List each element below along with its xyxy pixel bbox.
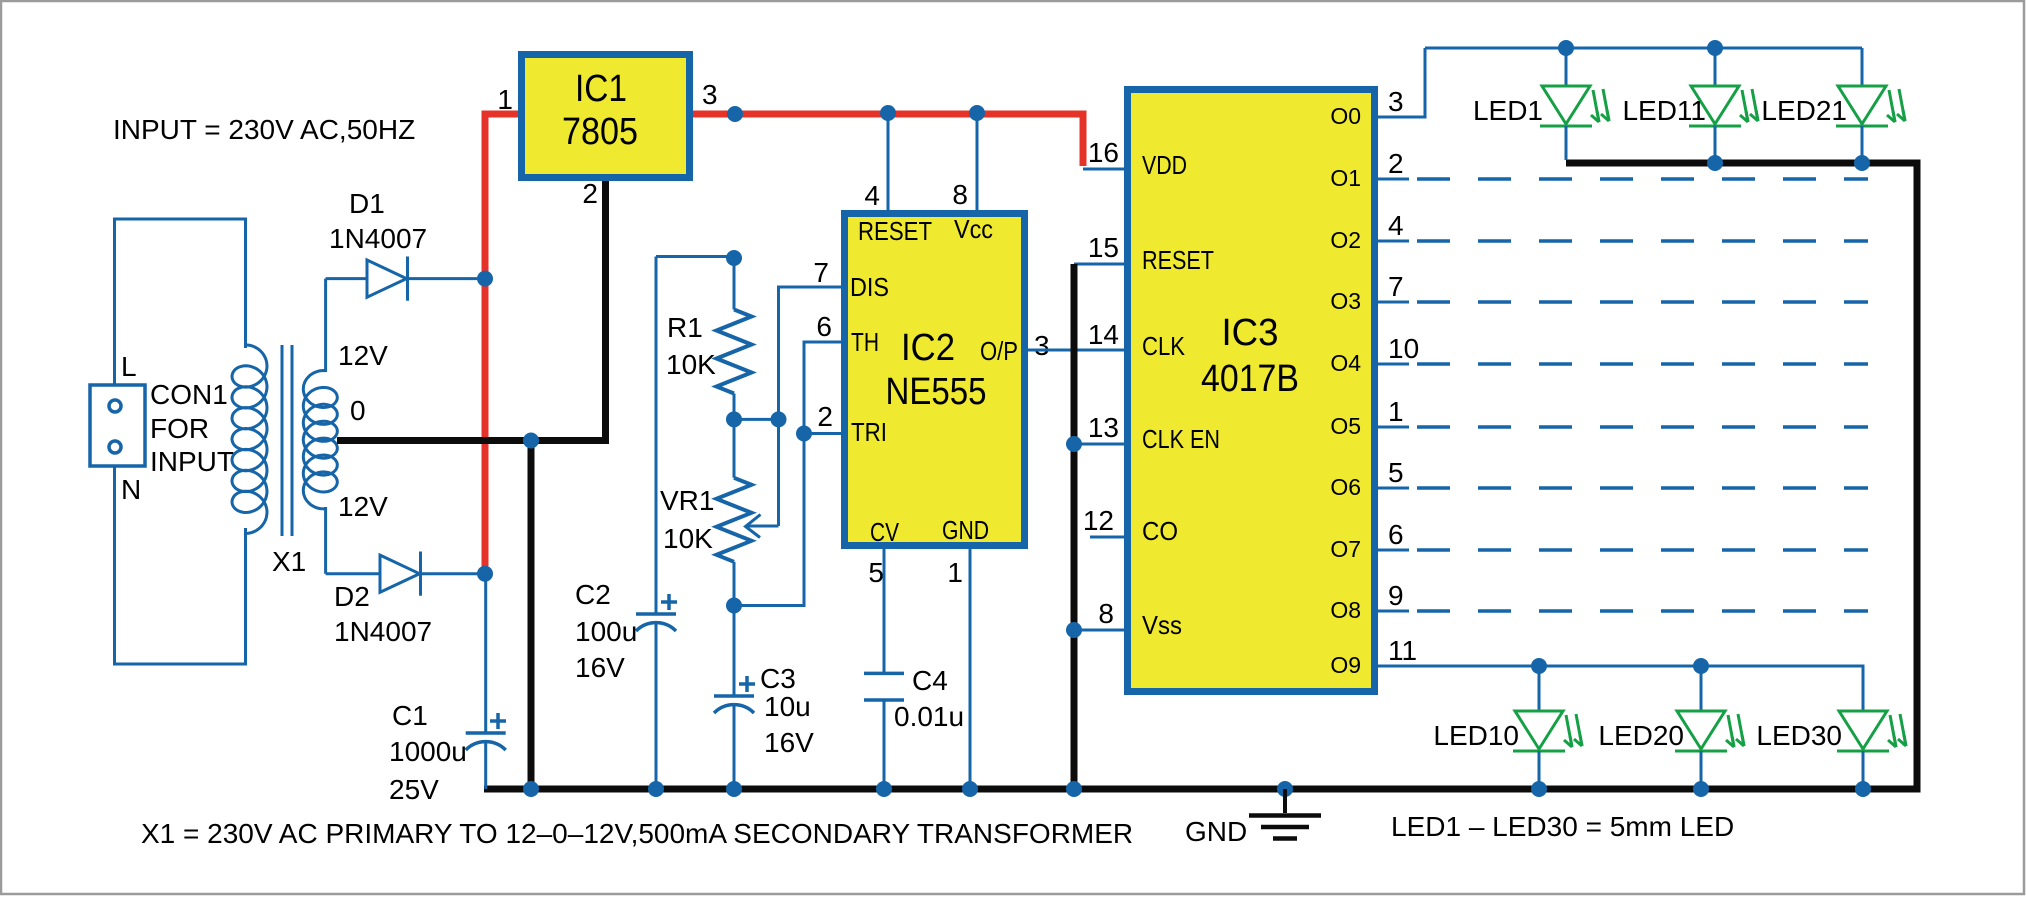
node: pin8 junction bbox=[969, 105, 985, 121]
capacitor C1 1000u 25V bbox=[466, 574, 506, 789]
ground rail (thick black) bbox=[484, 786, 1921, 793]
svg-text:FOR: FOR bbox=[150, 413, 209, 444]
node: R1 top junction bbox=[726, 250, 742, 266]
svg-text:INPUT: INPUT bbox=[150, 446, 234, 477]
svg-text:12V: 12V bbox=[338, 340, 388, 371]
wire: O2 dashed line bbox=[1417, 239, 1868, 243]
svg-text:16: 16 bbox=[1088, 137, 1119, 168]
svg-text:LED20: LED20 bbox=[1598, 720, 1684, 751]
wire: mains L lead from CON1 to primary top bbox=[115, 219, 246, 385]
svg-text:CON1: CON1 bbox=[150, 379, 228, 410]
svg-text:10u: 10u bbox=[764, 691, 811, 722]
svg-text:10: 10 bbox=[1388, 333, 1419, 364]
wire: Vss pin8 stub bbox=[1074, 629, 1124, 632]
wire: red rectified rail vertical bbox=[482, 114, 489, 574]
svg-text:5: 5 bbox=[868, 557, 884, 588]
node: D1 junction bbox=[477, 271, 493, 287]
svg-text:0.01u: 0.01u bbox=[894, 701, 964, 732]
wire: secondary bottom lead bbox=[324, 507, 327, 574]
svg-text:LED1: LED1 bbox=[1473, 95, 1543, 126]
wire: CV to C4 bbox=[883, 549, 886, 673]
wire: black vertical to ground rail bbox=[528, 441, 535, 790]
node: pin4 junction bbox=[880, 105, 896, 121]
node: LED21 bottom bbox=[1854, 155, 1870, 171]
svg-text:O9: O9 bbox=[1330, 652, 1361, 678]
svg-text:O6: O6 bbox=[1330, 474, 1361, 500]
wire: RESET pin15 stub bbox=[1074, 263, 1124, 266]
svg-text:GND: GND bbox=[942, 515, 989, 545]
wire: VR1 wiper riser bbox=[777, 419, 780, 526]
svg-text:CV: CV bbox=[870, 517, 900, 547]
svg-text:DIS: DIS bbox=[850, 272, 889, 302]
svg-text:5: 5 bbox=[1388, 457, 1404, 488]
wire: 0 tap to IC1 pin2 (black) bbox=[337, 181, 606, 441]
node: TRI junction bbox=[796, 426, 812, 442]
wire: O1 stub bbox=[1376, 178, 1409, 181]
wire: O5 dashed line bbox=[1417, 425, 1868, 429]
svg-text:2: 2 bbox=[582, 178, 598, 209]
node: LED1 top bbox=[1558, 40, 1574, 56]
svg-text:C4: C4 bbox=[912, 665, 948, 696]
wire: O1 dashed line bbox=[1417, 177, 1868, 181]
wire: O6 stub bbox=[1376, 487, 1409, 490]
diode D2 1N4007 bbox=[326, 552, 485, 596]
svg-text:3: 3 bbox=[702, 79, 718, 110]
wire: mains N lead from CON1 to primary bottom bbox=[115, 466, 246, 664]
node: LED30 bottom bbox=[1855, 781, 1871, 797]
svg-text:100u: 100u bbox=[575, 616, 637, 647]
wire: red from IC1 pin3 to IC3 bbox=[693, 114, 1083, 166]
wire: O2 stub bbox=[1376, 240, 1409, 243]
svg-text:C3: C3 bbox=[760, 663, 796, 694]
svg-text:R1: R1 bbox=[667, 312, 703, 343]
svg-text:12V: 12V bbox=[338, 491, 388, 522]
wire: top LED rail bbox=[1425, 47, 1862, 50]
LED LED20 bbox=[1675, 666, 1744, 786]
node: IC2 gnd on rail bbox=[962, 781, 978, 797]
wire: O0 to top LED rail bbox=[1376, 48, 1425, 117]
svg-text:NE555: NE555 bbox=[886, 371, 987, 413]
svg-text:LED21: LED21 bbox=[1761, 95, 1847, 126]
svg-text:RESET: RESET bbox=[858, 216, 932, 246]
node: LED10 top bbox=[1531, 658, 1547, 674]
svg-text:C2: C2 bbox=[575, 579, 611, 610]
wire: pin8 Vcc drop bbox=[976, 113, 979, 210]
wire: CO pin12 stub (n.c.) bbox=[1090, 536, 1124, 539]
node: C4 on rail bbox=[876, 781, 892, 797]
svg-text:Vss: Vss bbox=[1142, 610, 1182, 640]
wire: TRI stub bbox=[804, 432, 841, 435]
node: VR1 bottom junction bbox=[726, 598, 742, 614]
LED LED21 bbox=[1836, 48, 1905, 160]
node: R1 bottom junction bbox=[726, 411, 742, 427]
svg-text:25V: 25V bbox=[389, 774, 439, 805]
wire: DIS branch bbox=[734, 287, 841, 419]
LED LED1 bbox=[1540, 48, 1609, 160]
transformer X1 core bbox=[281, 345, 284, 536]
svg-text:0: 0 bbox=[350, 395, 366, 426]
svg-text:Vcc: Vcc bbox=[954, 214, 993, 244]
node: pin8 junction bbox=[1066, 622, 1082, 638]
svg-text:CO: CO bbox=[1142, 516, 1178, 546]
black rail under top LEDs bbox=[1566, 163, 1917, 789]
svg-text:3: 3 bbox=[1388, 86, 1404, 117]
wire: VDD pin16 stub bbox=[1083, 168, 1124, 171]
wire: TH/TRI common bbox=[734, 342, 841, 606]
node: LED20 top bbox=[1693, 658, 1709, 674]
svg-text:X1 = 230V AC PRIMARY TO 12–0–1: X1 = 230V AC PRIMARY TO 12–0–12V,500mA S… bbox=[141, 818, 1133, 849]
wire: IC2 GND to rail bbox=[969, 549, 972, 789]
node: pin13 junction bbox=[1066, 436, 1082, 452]
wire: O9 LED rail bbox=[1376, 666, 1863, 711]
svg-text:6: 6 bbox=[816, 311, 832, 342]
svg-text:CLK EN: CLK EN bbox=[1142, 424, 1220, 454]
svg-text:10K: 10K bbox=[663, 523, 713, 554]
LED LED11 bbox=[1689, 48, 1758, 160]
svg-text:1N4007: 1N4007 bbox=[329, 223, 427, 254]
svg-text:16V: 16V bbox=[764, 727, 814, 758]
svg-text:1: 1 bbox=[947, 557, 963, 588]
svg-text:8: 8 bbox=[952, 179, 968, 210]
node: D2 junction bbox=[477, 566, 493, 582]
wire: black reset/vss vertical bbox=[1071, 264, 1078, 789]
connector CON1 bbox=[90, 385, 145, 466]
node: C2 on rail bbox=[648, 781, 664, 797]
svg-text:C1: C1 bbox=[392, 700, 428, 731]
wire VR1 to C3 junction bbox=[733, 562, 736, 606]
svg-text:14: 14 bbox=[1088, 319, 1119, 350]
svg-text:15: 15 bbox=[1088, 232, 1119, 263]
svg-text:D1: D1 bbox=[349, 188, 385, 219]
svg-text:11: 11 bbox=[1388, 635, 1417, 666]
wire: C2 branch to red rail junction bbox=[656, 255, 733, 258]
svg-text:O3: O3 bbox=[1330, 288, 1361, 314]
svg-text:7: 7 bbox=[813, 257, 829, 288]
svg-text:O/P: O/P bbox=[980, 336, 1018, 366]
svg-text:1: 1 bbox=[1388, 396, 1404, 427]
wire R1 to VR1 bbox=[733, 394, 736, 478]
svg-text:TH: TH bbox=[851, 327, 879, 357]
wire: O4 dashed line bbox=[1417, 362, 1868, 366]
node: LED11 top bbox=[1707, 40, 1723, 56]
node: black vertical on rail bbox=[523, 781, 539, 797]
svg-text:O8: O8 bbox=[1330, 597, 1361, 623]
wire: O7 stub bbox=[1376, 549, 1409, 552]
ground symbol bbox=[1249, 781, 1321, 839]
capacitor C2 100u 16V bbox=[636, 257, 677, 790]
node: DIS junction bbox=[771, 411, 787, 427]
svg-text:LED11: LED11 bbox=[1622, 95, 1706, 126]
LED LED30 bbox=[1837, 666, 1906, 786]
wire: O6 dashed line bbox=[1417, 486, 1868, 490]
potentiometer VR1 10K bbox=[717, 478, 779, 562]
svg-text:4: 4 bbox=[1388, 210, 1404, 241]
svg-text:VR1: VR1 bbox=[660, 485, 714, 516]
wire: O3 stub bbox=[1376, 301, 1409, 304]
wire: O7 dashed line bbox=[1417, 548, 1868, 552]
svg-text:O0: O0 bbox=[1330, 103, 1361, 129]
svg-text:IC1: IC1 bbox=[575, 68, 627, 110]
svg-text:6: 6 bbox=[1388, 519, 1404, 550]
svg-text:1000u: 1000u bbox=[389, 736, 467, 767]
node: pin3 junction bbox=[727, 106, 743, 122]
transformer X1 primary winding bbox=[232, 345, 267, 534]
svg-text:L: L bbox=[121, 351, 137, 382]
svg-text:N: N bbox=[121, 474, 141, 505]
svg-text:IC2: IC2 bbox=[901, 327, 955, 369]
transformer X1 secondary winding bbox=[303, 371, 337, 509]
node: LED11 bottom bbox=[1707, 155, 1723, 171]
diode D1 1N4007 bbox=[326, 257, 485, 301]
svg-text:O5: O5 bbox=[1330, 413, 1361, 439]
svg-text:INPUT = 230V AC,50HZ: INPUT = 230V AC,50HZ bbox=[113, 114, 415, 145]
svg-text:3: 3 bbox=[1034, 330, 1050, 361]
wire: secondary top lead bbox=[324, 279, 327, 372]
wire: pin4 RESET drop bbox=[887, 113, 890, 210]
svg-text:1N4007: 1N4007 bbox=[334, 616, 432, 647]
wire: O/P to CLK bbox=[1028, 349, 1124, 352]
capacitor C3 10u 16V bbox=[714, 606, 755, 790]
svg-text:2: 2 bbox=[817, 401, 833, 432]
wire: O8 stub bbox=[1376, 610, 1409, 613]
svg-text:7: 7 bbox=[1388, 271, 1404, 302]
node: LED10 bottom bbox=[1531, 781, 1547, 797]
svg-text:4017B: 4017B bbox=[1201, 358, 1299, 400]
capacitor C4 0.01u bbox=[864, 673, 904, 789]
wire: red into IC1 pin1 bbox=[482, 111, 519, 118]
svg-text:12: 12 bbox=[1083, 505, 1114, 536]
svg-text:LED30: LED30 bbox=[1756, 720, 1842, 751]
svg-text:7805: 7805 bbox=[562, 111, 638, 153]
svg-text:GND: GND bbox=[1185, 816, 1247, 847]
svg-text:RESET: RESET bbox=[1142, 245, 1214, 275]
svg-text:4: 4 bbox=[864, 180, 880, 211]
LED LED10 bbox=[1513, 666, 1582, 786]
svg-text:O1: O1 bbox=[1330, 165, 1361, 191]
svg-text:CLK: CLK bbox=[1142, 331, 1186, 361]
node: C3 on rail bbox=[726, 781, 742, 797]
resistor R1 10K bbox=[717, 258, 752, 394]
svg-text:LED10: LED10 bbox=[1433, 720, 1519, 751]
svg-text:X1: X1 bbox=[272, 546, 306, 577]
node: 0-tap junction bbox=[523, 433, 539, 449]
timer IC2 NE555 bbox=[845, 214, 1025, 548]
counter IC3 4017B bbox=[1128, 90, 1375, 692]
wire: O5 stub bbox=[1376, 426, 1409, 429]
wire: CLK EN pin13 stub bbox=[1074, 443, 1124, 446]
svg-text:O4: O4 bbox=[1330, 350, 1361, 376]
svg-text:10K: 10K bbox=[666, 349, 716, 380]
svg-text:LED1 – LED30 = 5mm LED: LED1 – LED30 = 5mm LED bbox=[1391, 811, 1734, 842]
wire: O3 dashed line bbox=[1417, 300, 1868, 304]
svg-text:2: 2 bbox=[1388, 148, 1404, 179]
node: black vertical on rail bbox=[1066, 781, 1082, 797]
svg-text:D2: D2 bbox=[334, 581, 370, 612]
svg-text:13: 13 bbox=[1088, 412, 1119, 443]
wire: O8 dashed line bbox=[1417, 609, 1868, 613]
regulator IC1 7805 bbox=[522, 55, 690, 178]
svg-text:IC3: IC3 bbox=[1222, 312, 1279, 354]
svg-text:VDD: VDD bbox=[1142, 150, 1187, 180]
svg-text:O2: O2 bbox=[1330, 227, 1361, 253]
svg-text:1: 1 bbox=[497, 84, 513, 115]
svg-text:8: 8 bbox=[1098, 598, 1114, 629]
svg-text:16V: 16V bbox=[575, 652, 625, 683]
svg-text:9: 9 bbox=[1388, 580, 1404, 611]
svg-text:O7: O7 bbox=[1330, 536, 1361, 562]
node: LED20 bottom bbox=[1693, 781, 1709, 797]
svg-text:TRI: TRI bbox=[851, 417, 887, 447]
wire: O4 stub bbox=[1376, 363, 1409, 366]
